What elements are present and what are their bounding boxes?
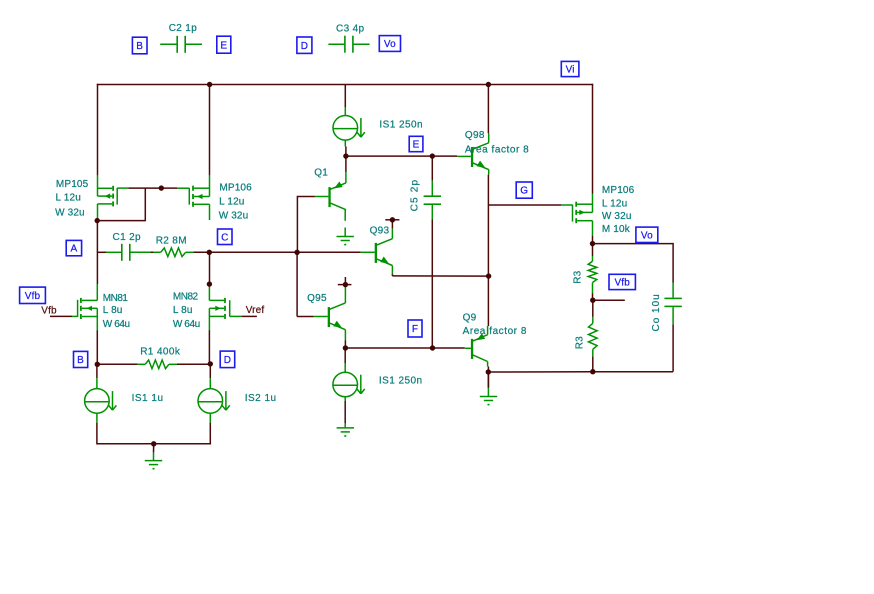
svg-text:B: B — [136, 41, 143, 52]
svg-text:D: D — [301, 41, 308, 52]
svg-text:Vref: Vref — [246, 305, 265, 316]
svg-text:G: G — [520, 186, 528, 197]
svg-text:W 64u: W 64u — [173, 319, 200, 330]
svg-text:MP105: MP105 — [56, 179, 89, 190]
svg-text:W 32u: W 32u — [602, 211, 632, 222]
svg-text:C1 2p: C1 2p — [113, 232, 142, 243]
svg-text:IS1 1u: IS1 1u — [132, 393, 164, 404]
svg-text:L 8u: L 8u — [173, 305, 193, 316]
svg-text:C: C — [221, 232, 228, 243]
svg-text:Vfb: Vfb — [614, 278, 630, 289]
svg-text:MN82: MN82 — [173, 292, 199, 303]
svg-text:C2 1p: C2 1p — [169, 23, 198, 34]
svg-text:C3 4p: C3 4p — [336, 24, 365, 35]
svg-text:R1 400k: R1 400k — [140, 346, 181, 357]
svg-text:Q93: Q93 — [370, 226, 390, 237]
svg-text:D: D — [224, 355, 231, 366]
svg-text:C5 2p: C5 2p — [410, 179, 421, 212]
svg-text:Vo: Vo — [384, 39, 396, 50]
svg-text:R3: R3 — [573, 270, 584, 283]
svg-text:L 12u: L 12u — [219, 196, 244, 207]
svg-text:Co 10u: Co 10u — [651, 293, 662, 331]
svg-text:M 10k: M 10k — [602, 224, 631, 235]
svg-text:L 12u: L 12u — [56, 193, 81, 204]
svg-text:Q98: Q98 — [465, 130, 485, 141]
svg-text:B: B — [77, 355, 84, 366]
svg-text:W 32u: W 32u — [55, 208, 85, 219]
svg-text:Vfb: Vfb — [25, 291, 41, 302]
svg-text:Vfb: Vfb — [41, 306, 57, 317]
svg-text:W 64u: W 64u — [103, 319, 130, 330]
svg-text:MP106: MP106 — [602, 185, 635, 196]
svg-text:E: E — [220, 40, 227, 51]
svg-text:W 32u: W 32u — [219, 211, 249, 222]
svg-text:Vo: Vo — [641, 230, 653, 241]
svg-text:IS1 250n: IS1 250n — [379, 119, 423, 130]
svg-text:Q9: Q9 — [463, 312, 477, 323]
svg-text:R3: R3 — [575, 336, 586, 349]
svg-text:IS2 1u: IS2 1u — [245, 393, 277, 404]
svg-text:MP106: MP106 — [219, 182, 252, 193]
svg-text:Vi: Vi — [566, 65, 575, 76]
svg-text:MN81: MN81 — [103, 293, 129, 304]
svg-text:Q1: Q1 — [314, 168, 328, 179]
svg-text:Area factor 8: Area factor 8 — [465, 144, 529, 155]
svg-text:E: E — [413, 140, 420, 151]
svg-text:IS1 250n: IS1 250n — [379, 375, 423, 386]
svg-text:L 8u: L 8u — [103, 305, 123, 316]
svg-text:L 12u: L 12u — [602, 199, 627, 210]
svg-text:F: F — [412, 324, 418, 335]
svg-text:R2 8M: R2 8M — [156, 235, 187, 246]
svg-text:Q95: Q95 — [307, 293, 327, 304]
svg-text:Area factor 8: Area factor 8 — [463, 326, 527, 337]
svg-text:A: A — [70, 244, 77, 255]
